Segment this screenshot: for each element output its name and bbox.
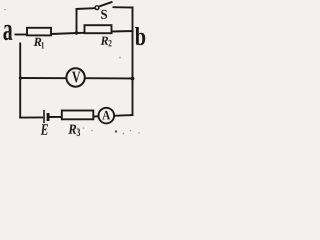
left vertical wire below node a: [19, 43, 21, 119]
label R2: [101, 37, 112, 47]
label R1: [34, 38, 44, 49]
node b label: [135, 27, 145, 45]
label S: [101, 10, 107, 19]
label E: [41, 124, 48, 135]
switch branch left vertical wire: [76, 8, 78, 33]
voltmeter branch right wire: [85, 77, 133, 79]
resistor R1: [27, 28, 51, 36]
wire R3 to ammeter: [93, 115, 98, 117]
switch branch right vertical wire: [132, 7, 134, 31]
junction switch tap: [75, 31, 78, 34]
voltmeter V: [66, 68, 84, 86]
wire battery to R3: [50, 116, 63, 118]
wire a to R1: [15, 34, 27, 36]
resistor R2: [85, 25, 112, 33]
resistor R3: [62, 111, 94, 120]
switch S contact and blade: [95, 2, 112, 10]
wire junction to R2: [77, 32, 85, 34]
right vertical wire node b to ammeter corner: [132, 31, 134, 116]
switch branch top right wire: [113, 6, 134, 8]
bottom wire left to battery: [19, 116, 43, 118]
node a label: [3, 25, 12, 40]
switch branch top left wire: [76, 7, 95, 10]
wire ammeter to right vertical: [114, 114, 133, 117]
wire R1 to switch junction: [51, 33, 77, 34]
junction left voltmeter tap: [19, 76, 22, 79]
ammeter A: [99, 108, 115, 124]
voltmeter branch left wire: [20, 77, 66, 79]
junction right voltmeter tap: [131, 77, 135, 81]
battery E: [44, 110, 50, 123]
label R3: [68, 125, 80, 137]
wire R2 to node b: [112, 30, 134, 33]
